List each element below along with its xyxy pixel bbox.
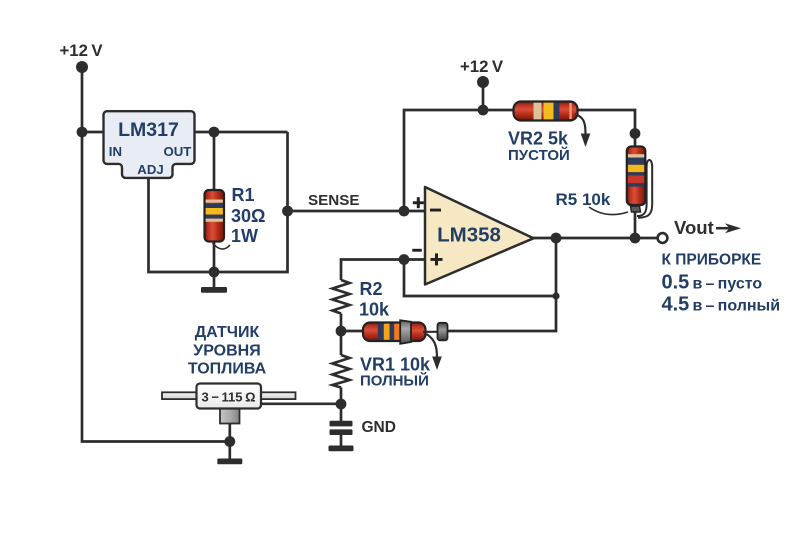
VR1 wiper arrow [427, 334, 438, 357]
svg-text:LM317: LM317 [118, 119, 179, 141]
svg-text:Vout: Vout [674, 217, 714, 238]
svg-text:+12 V: +12 V [460, 57, 504, 76]
svg-text:ADJ: ADJ [137, 162, 163, 177]
svg-text:IN: IN [109, 144, 122, 159]
terminal: Vout open circle [658, 233, 668, 243]
wire top rail from op-amp input node up and right to VR2 left lead [404, 110, 514, 211]
svg-text:+12 V: +12 V [60, 41, 104, 60]
wire feedback from output node down to junction [555, 238, 558, 296]
VR1 wiper terminal box [438, 323, 448, 341]
node: feedback / wiper junction [552, 292, 559, 299]
wire capacitor to ground bar [340, 433, 343, 446]
node: sensor ground junction [224, 436, 235, 447]
op-amp U2 LM358 triangle [425, 187, 534, 285]
svg-text:4.5 в – полный: 4.5 в – полный [662, 294, 781, 316]
op-amp non-inverting input mark (inside) [431, 253, 443, 265]
resistor R1 body (pictorial) [205, 190, 225, 242]
wire right vertical from OUT corner to ADJ return, SENSE tap column [149, 132, 288, 272]
node: VR1 / sensor junction [336, 399, 347, 410]
ground bar under sensor [217, 459, 242, 465]
svg-text:LM358: LM358 [437, 223, 501, 246]
svg-text:R2: R2 [360, 279, 383, 299]
svg-text:ТОПЛИВА: ТОПЛИВА [188, 361, 267, 378]
svg-text:VR2 5k: VR2 5k [508, 129, 569, 149]
wire feedback junction left and up to non-inverting input node [404, 260, 556, 297]
ground bar under R1 [201, 287, 227, 293]
svg-text:ПУСТОЙ: ПУСТОЙ [508, 146, 570, 164]
potentiometer VR2 body (pictorial) [514, 102, 578, 121]
wire VR1 element bottom to sensor node [340, 388, 343, 405]
node: LM317 OUT / R1 top junction [209, 127, 220, 138]
fuel level sensor left lead strip [162, 392, 197, 399]
VR2 wiper arrow [575, 114, 586, 134]
fuel level sensor bottom tab [220, 407, 240, 424]
svg-text:OUT: OUT [163, 144, 191, 159]
node: R1 bottom / ADJ junction [209, 267, 220, 278]
wire op-amp lower input to R2 branch corner [341, 260, 425, 281]
wire left rail to LM317 IN [82, 131, 103, 134]
fuel level sensor body 3-115 Ω [197, 384, 262, 409]
wire R1 top lead [213, 132, 216, 192]
wire R5 bottom lead to output rail [634, 204, 637, 238]
node: R2 / VR1 junction [336, 326, 347, 337]
svg-text:ПОЛНЫЙ: ПОЛНЫЙ [360, 372, 429, 390]
node: op-amp inverting input junction [399, 206, 410, 217]
svg-text:VR1 10k: VR1 10k [360, 355, 431, 375]
svg-text:R1: R1 [232, 185, 255, 205]
node: R5 bottom / Vout junction [630, 233, 641, 244]
wire VR1 node to VR1 body left lead [341, 330, 364, 333]
svg-text:30Ω: 30Ω [231, 206, 265, 226]
svg-text:ДАТЧИК: ДАТЧИК [195, 324, 260, 341]
sense polarity minus (outside, above non-inverting input) [412, 249, 422, 252]
node: output / feedback junction [551, 233, 562, 244]
svg-text:УРОВНЯ: УРОВНЯ [193, 342, 260, 359]
wire node to capacitor top plate [340, 404, 343, 422]
node: +12V terminal above VR2 [477, 76, 489, 88]
wire SENSE from tap to op-amp inverting input [288, 210, 426, 213]
node: +12V rail / VR2 junction [478, 105, 489, 116]
wire op-amp output to Vout terminal [533, 237, 658, 240]
wire R2 bottom to VR1 node [340, 314, 343, 332]
wire LM317 OUT to right corner [194, 131, 288, 134]
wire VR1 node down to zigzag element [340, 331, 343, 355]
sense polarity plus (outside, above inverting input) [413, 197, 424, 208]
svg-text:10k: 10k [359, 299, 390, 319]
wire VR2 right lead to R5 top node [577, 110, 635, 147]
svg-text:GND: GND [362, 419, 396, 436]
wire +12V stub above VR2 [482, 82, 485, 110]
capacitor GND bottom plate [330, 429, 353, 435]
node: SENSE tap junction [282, 206, 293, 217]
svg-text:К ПРИБОРКЕ: К ПРИБОРКЕ [662, 251, 762, 268]
svg-text:R5 10k: R5 10k [556, 190, 611, 209]
potentiometer VR1 zigzag element [333, 355, 350, 388]
wire sensor tab down to bottom rail node and ground [228, 423, 231, 459]
resistor R2 zigzag symbol [333, 280, 350, 314]
node: +12V terminal left [76, 61, 88, 73]
potentiometer VR1 body (pictorial horizontal) [363, 320, 426, 344]
svg-text:0.5 в – пусто: 0.5 в – пусто [662, 272, 763, 294]
wire sensor right lead to node [261, 402, 341, 405]
node: VR2 / R5 top junction [630, 128, 641, 139]
fuel level sensor right lead strip [261, 392, 296, 399]
svg-text:SENSE: SENSE [308, 192, 360, 209]
op-amp inverting input mark (inside) [430, 209, 441, 212]
wire R1 bottom lead to ground stub [213, 240, 216, 288]
node: op-amp non-inverting input junction [399, 254, 410, 265]
resistor R5 body (pictorial, vertical with folded lead) [627, 147, 652, 218]
ground bar under capacitor [329, 446, 354, 452]
svg-text:1W: 1W [231, 226, 258, 246]
regulator U1 LM317 body [104, 111, 195, 178]
wire +12V left rail down and along bottom to sensor ground node [82, 67, 230, 442]
wire VR1 tip to wiper box [423, 331, 440, 333]
wire junction down to VR1 wiper line [448, 296, 557, 331]
svg-text:3 − 115 Ω: 3 − 115 Ω [201, 389, 255, 404]
capacitor GND top plate [330, 421, 353, 427]
node: left rail / LM317 IN junction [77, 127, 88, 138]
